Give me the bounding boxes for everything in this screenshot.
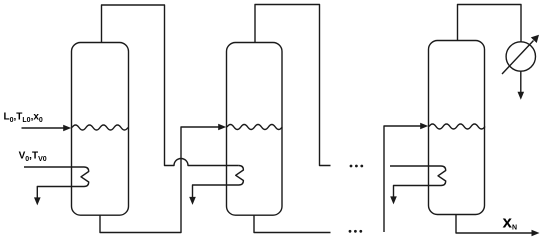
stage N vapor line to condenser bbox=[458, 5, 522, 42]
stage N liquid surface (wavy) bbox=[429, 124, 485, 129]
stage 2 vessel bbox=[227, 43, 283, 216]
stage 2 condensate outlet arrow bbox=[189, 197, 196, 205]
stage 2 liquid surface (wavy) bbox=[227, 125, 282, 130]
feed stream L0 arrow bbox=[22, 127, 65, 129]
condenser diagonal arrow bbox=[502, 41, 534, 75]
stage 1 liquid to stage 2 feed arrow bbox=[100, 127, 219, 233]
stage 1 heating coil (V0 steam) bbox=[24, 167, 89, 198]
condenser / pressure symbol circle bbox=[506, 42, 535, 71]
stage 2 heating coil bbox=[193, 166, 244, 198]
stage N feed arrow (liquid from previous stage) bbox=[384, 126, 421, 232]
stage 2 liquid line toward stage 3 bbox=[254, 215, 331, 232]
product stream xN arrow bbox=[456, 215, 532, 234]
stage 1 vapor line to stage 2 coil (with crossover hop) bbox=[102, 5, 239, 166]
stage N condensate outlet arrow bbox=[390, 196, 397, 204]
condenser outlet arrow (down) bbox=[520, 71, 522, 92]
ellipsis on vapor line bbox=[350, 165, 364, 168]
ellipsis on liquid line bbox=[349, 230, 363, 233]
stage 2 vapor line toward stage 3 bbox=[255, 5, 331, 166]
stage 1 vessel bbox=[72, 43, 129, 216]
stage 1 liquid surface (wavy) bbox=[72, 125, 128, 130]
stage N vessel bbox=[429, 41, 485, 215]
stage N heating coil (vapor from previous stage) bbox=[390, 166, 446, 197]
stage 1 condensate outlet arrow bbox=[34, 197, 41, 205]
